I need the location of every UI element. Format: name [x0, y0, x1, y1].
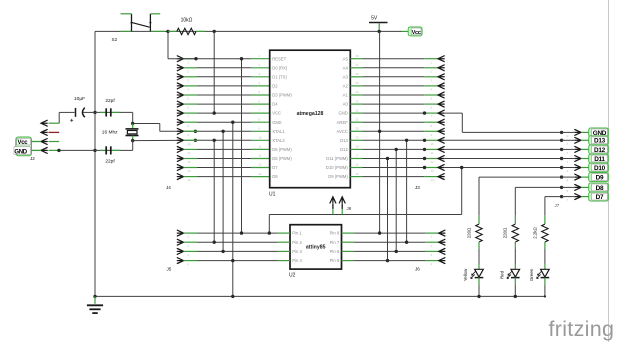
- svg-text:A5: A5: [343, 56, 349, 61]
- wire D12 to U2 pin6: [395, 149, 397, 251]
- connector J7 pin GND: [560, 130, 589, 138]
- wire xtal2 to row: [133, 139, 196, 141]
- watermark fritzing: [549, 317, 615, 341]
- svg-text:10µF: 10µF: [74, 96, 85, 102]
- node XTAL2 vert top: [213, 139, 216, 142]
- node XTAL1 vert top: [221, 130, 224, 133]
- net label D9: [589, 173, 609, 182]
- node xtal1 row junction: [194, 130, 197, 133]
- svg-text:Pin 7: Pin 7: [330, 240, 340, 245]
- crystal Y1 16MHz: [126, 124, 139, 141]
- node LED3 cathode corner: [544, 295, 546, 297]
- svg-text:J3: J3: [415, 185, 420, 190]
- svg-text:D12: D12: [594, 147, 606, 154]
- node RESET jog: [194, 57, 197, 60]
- svg-text:J2: J2: [30, 156, 35, 161]
- svg-text:12: 12: [431, 160, 435, 164]
- svg-text:D9: D9: [596, 175, 604, 182]
- net label GND: [589, 128, 609, 137]
- wire XTAL2 to U2 pin2: [213, 140, 215, 242]
- svg-text:XTAL2: XTAL2: [272, 138, 285, 143]
- node D12 row tap: [423, 148, 426, 151]
- svg-text:attiny85: attiny85: [306, 245, 326, 251]
- connector J7 pin D9: [560, 174, 589, 182]
- node U2 pin4: [231, 259, 234, 262]
- node GND row tap: [423, 111, 426, 114]
- svg-text:220Ω: 220Ω: [466, 227, 471, 238]
- net label Vcc top right: [408, 27, 422, 36]
- wire GND row to J7: [445, 113, 562, 132]
- svg-text:23: 23: [355, 99, 359, 103]
- J2 pin 2 arrow: [41, 130, 47, 136]
- node U2 pin1 left: [268, 231, 271, 234]
- svg-text:Green: Green: [529, 268, 534, 281]
- wire D11 to U2 pin5: [387, 159, 389, 261]
- svg-text:Vcc: Vcc: [18, 140, 29, 146]
- node J2 gnd junction: [57, 149, 60, 152]
- svg-text:18: 18: [355, 145, 359, 149]
- svg-text:D0 (RX): D0 (RX): [272, 65, 288, 70]
- node 5V junction: [378, 30, 381, 33]
- switch S2: [121, 14, 161, 32]
- svg-text:Pin 1: Pin 1: [292, 231, 302, 236]
- node U2 pin8 vcc: [378, 231, 381, 234]
- label J7: [555, 203, 560, 208]
- node U1 GND junction: [231, 121, 234, 124]
- svg-text:10kΩ: 10kΩ: [181, 18, 193, 24]
- svg-text:26: 26: [355, 72, 359, 76]
- wire J2 GND to rail: [32, 149, 96, 151]
- label J2: [30, 156, 35, 161]
- net label D13: [589, 136, 609, 145]
- svg-text:16: 16: [355, 163, 359, 167]
- svg-text:D4: D4: [272, 102, 278, 107]
- op IC U2 attiny85: [278, 225, 355, 269]
- wire J8 net to U2 pin1: [268, 215, 270, 234]
- label U2: [289, 273, 296, 279]
- wire D11 row to J7: [445, 158, 562, 160]
- svg-text:D13: D13: [340, 138, 348, 143]
- label 10kOhm: [181, 18, 193, 24]
- node R1-right junction: [213, 30, 216, 33]
- capacitor C2 22pF top: [106, 108, 111, 116]
- svg-text:GND: GND: [272, 120, 281, 125]
- wire D8 row: [515, 186, 561, 188]
- header J8 pin1: [330, 197, 336, 215]
- svg-text:13: 13: [188, 169, 192, 173]
- label S2: [112, 37, 118, 42]
- connector J7 pin D8: [560, 185, 589, 193]
- node D10 branch: [460, 166, 463, 169]
- resistor R2 220 + LED1 Yellow: [463, 177, 483, 296]
- svg-text:GND: GND: [14, 149, 27, 155]
- svg-text:Pin 3: Pin 3: [292, 249, 302, 254]
- svg-text:D11 (PWM): D11 (PWM): [326, 156, 348, 161]
- op IC U1 atmega128: [259, 50, 359, 188]
- J2 pin 4 arrow: [41, 148, 47, 154]
- wire top rail: [95, 30, 379, 32]
- wire D13 to U2 pin7: [406, 140, 408, 242]
- net label D12: [589, 145, 609, 154]
- svg-text:13: 13: [259, 163, 263, 167]
- svg-text:D: D: [567, 134, 569, 138]
- svg-text:220Ω: 220Ω: [503, 227, 508, 238]
- connector J2 box: [14, 137, 32, 156]
- node gnd rail tap: [231, 295, 234, 298]
- svg-text:J4: J4: [166, 185, 171, 190]
- header J6 pins: [354, 230, 445, 266]
- node U2 pin5: [386, 259, 389, 262]
- wire RESET to U2 pin1: [241, 59, 243, 233]
- svg-text:22pf: 22pf: [105, 158, 115, 164]
- svg-text:14: 14: [259, 172, 263, 176]
- wire S2 to RESET: [168, 31, 196, 58]
- wire xtal bottom corner: [132, 141, 134, 151]
- svg-text:XTAL1: XTAL1: [272, 129, 285, 134]
- net label D8: [589, 183, 609, 192]
- svg-text:D10: D10: [594, 165, 606, 172]
- node LED2 cathode: [514, 295, 517, 298]
- svg-text:D9 (PWM): D9 (PWM): [328, 174, 348, 179]
- header J8 pin2: [339, 197, 345, 215]
- node D13 row tap: [423, 139, 426, 142]
- power 5V symbol: [369, 16, 388, 32]
- wire XTAL1 to U2 pin3: [222, 131, 224, 251]
- svg-text:13: 13: [431, 169, 435, 173]
- svg-text:D5 (PWM): D5 (PWM): [272, 147, 292, 152]
- svg-text:A3: A3: [343, 74, 349, 79]
- label J3: [415, 185, 420, 190]
- connector J7 pin D13: [560, 137, 589, 145]
- svg-text:28: 28: [355, 54, 359, 58]
- wire xtal top corner: [132, 112, 134, 123]
- svg-text:A4: A4: [343, 65, 349, 70]
- wire cap row bottom: [95, 149, 133, 151]
- svg-text:Pin 8: Pin 8: [330, 231, 340, 236]
- svg-text:14: 14: [188, 178, 192, 182]
- wire top rail green under switch: [121, 30, 166, 32]
- connector J7 pin D11: [560, 156, 589, 164]
- wire 5V feed: [379, 30, 408, 32]
- svg-text:S2: S2: [112, 37, 118, 42]
- node S2-R1 junction: [166, 30, 169, 33]
- J2 pin 1 arrow: [41, 120, 47, 126]
- wire cap row top: [95, 111, 133, 113]
- wire Vcc down to U1 VCC: [213, 31, 215, 113]
- wire 5V to AVCC and U2 pin8: [379, 31, 381, 233]
- node D13 vert top: [405, 139, 408, 142]
- svg-text:11: 11: [431, 151, 434, 155]
- svg-text:14: 14: [431, 178, 435, 182]
- label J8: [347, 206, 352, 211]
- svg-text:2.2kΩ: 2.2kΩ: [532, 226, 537, 238]
- node D12 vert top: [395, 148, 398, 151]
- svg-text:U1: U1: [269, 192, 276, 198]
- svg-text:11: 11: [188, 151, 191, 155]
- node U2 pin6: [395, 250, 398, 253]
- svg-text:15: 15: [355, 172, 359, 176]
- svg-text:J5: J5: [167, 267, 172, 272]
- header J5 pins: [177, 230, 277, 266]
- capacitor C3 22pF bottom: [106, 146, 111, 154]
- node U2 pin3: [221, 250, 224, 253]
- wire J2 pin2 red stub: [49, 131, 60, 133]
- node U2 pin1 reset: [240, 231, 243, 234]
- svg-text:20: 20: [355, 127, 359, 131]
- svg-text:GND: GND: [338, 111, 347, 116]
- label 10uF: [74, 96, 85, 102]
- connector J7 pin D12: [560, 147, 589, 155]
- svg-text:J7: J7: [555, 203, 560, 208]
- svg-text:U2: U2: [289, 273, 296, 279]
- label 16 Mhz: [102, 130, 118, 136]
- header J3 pins: [350, 56, 444, 182]
- node D11 vert top: [386, 157, 389, 160]
- svg-text:VCC: VCC: [272, 111, 281, 116]
- svg-text:D1 (TX): D1 (TX): [272, 74, 287, 79]
- svg-text:Pin 4: Pin 4: [292, 258, 302, 263]
- node xtal bottom: [131, 139, 134, 142]
- svg-text:J8: J8: [347, 206, 352, 211]
- svg-text:22pf: 22pf: [105, 98, 115, 104]
- net label D11: [589, 154, 609, 163]
- svg-text:24: 24: [355, 90, 359, 94]
- node D10 row tap: [423, 166, 426, 169]
- svg-text:12: 12: [259, 154, 263, 158]
- node AVCC junction: [378, 130, 381, 133]
- resistor R3 220 + LED2 Red: [499, 187, 519, 296]
- svg-text:19: 19: [355, 136, 359, 140]
- J2 pin 3 arrow: [41, 139, 47, 145]
- label J5: [167, 267, 172, 272]
- svg-text:Pin 5: Pin 5: [330, 258, 340, 263]
- svg-text:D7: D7: [596, 194, 604, 201]
- page border line: [608, 0, 610, 342]
- node LED1 cathode: [477, 295, 480, 298]
- node U1 VCC junction: [213, 111, 216, 114]
- node left rail cap row: [93, 111, 96, 114]
- node D11 row tap: [423, 157, 426, 160]
- svg-text:D6 (PWM): D6 (PWM): [272, 156, 292, 161]
- node U2 pin2: [213, 241, 216, 244]
- svg-text:5V: 5V: [371, 16, 378, 22]
- node RESET vert top: [240, 57, 243, 60]
- svg-text:D11: D11: [594, 156, 605, 163]
- svg-text:12: 12: [188, 160, 192, 164]
- resistor R1 10k: [168, 28, 205, 34]
- label 22pf bottom: [105, 158, 115, 164]
- svg-text:Pin 2: Pin 2: [292, 240, 302, 245]
- wire D7 row: [545, 196, 562, 198]
- node gnd rail corner: [93, 295, 96, 298]
- label J6: [415, 267, 420, 272]
- svg-text:D8: D8: [596, 185, 604, 192]
- svg-text:D10 (PWM): D10 (PWM): [326, 165, 348, 170]
- wire bottom GND rail: [95, 295, 545, 297]
- svg-text:10: 10: [259, 136, 263, 140]
- svg-text:A0: A0: [343, 102, 349, 107]
- wire J8 net horizontal: [269, 214, 461, 216]
- svg-text:RESET: RESET: [272, 56, 286, 61]
- svg-text:D13: D13: [594, 138, 606, 145]
- svg-text:25: 25: [355, 81, 359, 85]
- node left rail gnd row: [93, 149, 96, 152]
- wire left GND rail vertical: [94, 31, 96, 296]
- svg-text:10: 10: [188, 142, 192, 146]
- svg-text:fritzing: fritzing: [549, 317, 615, 341]
- wire D13 row to J7: [445, 139, 562, 141]
- svg-text:17: 17: [355, 154, 359, 158]
- wire J2 Vcc stub: [32, 141, 60, 143]
- svg-text:Yellow: Yellow: [463, 268, 468, 281]
- svg-text:Red: Red: [499, 270, 504, 279]
- svg-text:AREF: AREF: [337, 120, 349, 125]
- wire xtal1 to row: [133, 124, 196, 132]
- svg-text:D12: D12: [340, 147, 348, 152]
- svg-text:16 Mhz: 16 Mhz: [102, 130, 118, 136]
- net label D10: [589, 163, 609, 172]
- svg-text:D2: D2: [272, 84, 278, 89]
- ground symbol: [87, 296, 103, 313]
- svg-text:AVCC: AVCC: [336, 129, 347, 134]
- node U2 pin7: [405, 241, 408, 244]
- svg-text:21: 21: [355, 117, 359, 121]
- svg-text:Pin 6: Pin 6: [330, 249, 340, 254]
- label J4: [166, 185, 171, 190]
- svg-text:Vcc: Vcc: [412, 30, 421, 36]
- wire J2 pin1 to cap: [49, 112, 75, 123]
- label 22pf top: [105, 98, 115, 104]
- svg-text:27: 27: [355, 63, 359, 67]
- wire D10 row to J7 and J8 net: [445, 168, 562, 215]
- net label D7: [589, 192, 609, 201]
- capacitor C1 10uF: [70, 108, 95, 122]
- wire D12 row to J7: [445, 148, 562, 150]
- header J4 pins: [177, 56, 269, 182]
- svg-text:11: 11: [259, 145, 262, 149]
- svg-text:J6: J6: [415, 267, 420, 272]
- svg-text:A2: A2: [343, 84, 349, 89]
- wire D9 row: [479, 176, 562, 178]
- svg-text:D8: D8: [272, 174, 278, 179]
- resistor R4 2.2k + LED3 Green: [529, 197, 549, 297]
- connector J7 pin D10: [560, 165, 589, 173]
- svg-text:D3 (PWM): D3 (PWM): [272, 93, 292, 98]
- svg-text:D7: D7: [272, 165, 278, 170]
- connector J7 pin D7: [560, 194, 589, 202]
- node xtal top: [131, 122, 134, 125]
- svg-text:A1: A1: [343, 93, 349, 98]
- svg-text:22: 22: [355, 108, 359, 112]
- svg-text:10: 10: [431, 142, 435, 146]
- label U1: [269, 192, 276, 198]
- node xtal2 row junction: [194, 139, 197, 142]
- svg-text:atmega128: atmega128: [297, 111, 324, 117]
- wire U1 GND down to gnd rail: [232, 122, 234, 296]
